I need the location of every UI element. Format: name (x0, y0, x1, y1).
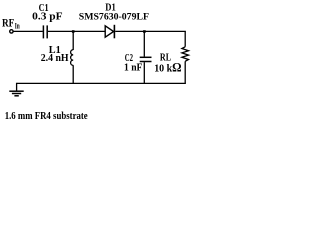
svg-text:In: In (15, 21, 20, 30)
wire bottom rail (17, 82, 186, 84)
wire diode to right corner (115, 30, 186, 32)
svg-text:RF: RF (2, 15, 14, 29)
svg-text:0.3 pF: 0.3 pF (32, 12, 62, 23)
node junction L1 (72, 30, 75, 33)
wire input to C1 (13, 30, 43, 32)
wire C1 to diode (48, 30, 106, 32)
svg-text:SMS7630-079LF: SMS7630-079LF (79, 13, 149, 23)
svg-text:10 kΩ: 10 kΩ (154, 61, 181, 75)
svg-text:2.4 nH: 2.4 nH (41, 53, 69, 64)
diode D1 (105, 26, 113, 37)
inductor L1 (72, 31, 74, 50)
svg-text:RL: RL (160, 53, 171, 64)
capacitor C2 (143, 31, 145, 56)
capacitor C1 (42, 25, 44, 38)
svg-text:1.6 mm FR4 substrate: 1.6 mm FR4 substrate (5, 111, 88, 122)
svg-text:1 nF: 1 nF (124, 63, 142, 74)
node junction C2 (143, 30, 146, 33)
ground (16, 83, 18, 91)
resistor RL (184, 31, 186, 46)
terminal RF_In (10, 30, 13, 33)
